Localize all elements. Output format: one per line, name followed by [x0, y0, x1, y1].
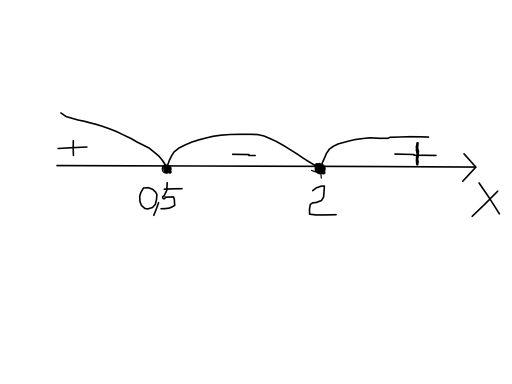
plus sign right vertical bold stroke: [417, 143, 418, 164]
arrowhead: [463, 154, 476, 181]
axis label X: [472, 183, 499, 216]
curve right rising branch: [322, 137, 429, 164]
comma of "0,5": [154, 203, 159, 216]
zero point 2 scribble rings: [312, 163, 324, 178]
curve left descending branch: [61, 113, 167, 167]
label 0 of "0,5": [140, 188, 157, 209]
plus sign right region: [395, 154, 436, 155]
minus sign middle region: [233, 154, 256, 155]
label 2: [310, 186, 337, 215]
curve middle hump: [168, 134, 319, 166]
zero point 2 (filled scribble dot): [315, 163, 326, 175]
x-axis: [57, 166, 474, 168]
plus sign left region: [58, 141, 87, 156]
digit 5 of "0,5": [161, 183, 182, 209]
zero point 0.5 (filled scribble dot): [163, 164, 172, 174]
zero point 0.5 scribble rings: [162, 165, 169, 173]
